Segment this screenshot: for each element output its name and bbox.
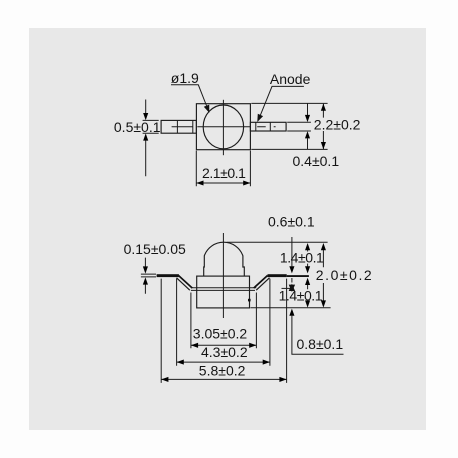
- svg-text:1.4±0.1: 1.4±0.1: [280, 249, 324, 265]
- top view horizontal centerline: [172, 126, 276, 128]
- svg-text:3.05±0.2: 3.05±0.2: [193, 325, 248, 341]
- body top/bottom extension lines (right): [251, 103, 327, 149]
- top view body outline: [196, 104, 250, 150]
- side view body outline: [197, 276, 250, 308]
- dimension 2.0±0.2 (overall height): [316, 243, 373, 308]
- dimension 1.4±0.1 upper (dome top to seating): [280, 243, 324, 273]
- side view epoxy dome: [204, 242, 245, 276]
- lead frame lines through body: [191, 288, 256, 291]
- svg-text:ø1.9: ø1.9: [171, 70, 199, 86]
- svg-text:0.5±0.1: 0.5±0.1: [114, 119, 161, 135]
- side view anode mark nub: [248, 299, 251, 302]
- label 0.6±0.1 (lead height above seating): [268, 214, 315, 293]
- svg-text:2.0±0.2: 2.0±0.2: [316, 267, 373, 283]
- foot extension lines left (0.15 dim): [141, 274, 156, 277]
- top view left lead (cathode): [161, 120, 196, 133]
- left lead gull-wing diagonal: [177, 276, 193, 291]
- svg-text:2.1±0.1: 2.1±0.1: [202, 165, 246, 181]
- drawing panel background: [29, 28, 426, 430]
- label ø1.9 with leader arrow to lens: [171, 70, 210, 113]
- dimension 4.3±0.2 (foot inner span): [177, 279, 270, 366]
- dimension 0.4±0.1 (right lead width): [293, 103, 340, 169]
- svg-text:Anode: Anode: [270, 71, 311, 87]
- dimension 1.4±0.1 lower (seating to body bottom): [279, 278, 323, 308]
- top view lens circle ø1.9: [203, 105, 243, 149]
- dome top extension line: [227, 241, 328, 243]
- body bottom extension line: [250, 307, 330, 309]
- dimension 0.5±0.1 (left lead width): [114, 100, 161, 177]
- svg-text:5.8±0.2: 5.8±0.2: [199, 362, 246, 378]
- top view right lead (anode): [250, 122, 286, 131]
- top view vertical centerline: [222, 100, 224, 155]
- label Anode with leader arrow to right lead: [257, 71, 310, 122]
- left lead foot: [157, 274, 179, 277]
- lead bottom extension line (right): [282, 287, 292, 289]
- svg-text:0.4±0.1: 0.4±0.1: [293, 153, 340, 169]
- dimension 0.8±0.1 with leader: [289, 309, 343, 355]
- svg-text:4.3±0.2: 4.3±0.2: [201, 344, 248, 360]
- seating plane extension line (right): [287, 275, 309, 277]
- svg-text:0.8±0.1: 0.8±0.1: [297, 336, 344, 352]
- right lead extension lines: [287, 122, 311, 131]
- svg-text:1.4±0.1: 1.4±0.1: [279, 287, 323, 303]
- dimension 5.8±0.2 (overall lead span): [161, 279, 286, 383]
- svg-text:2.2±0.2: 2.2±0.2: [314, 117, 361, 133]
- dimension 3.05±0.2 (inner bend span): [191, 293, 257, 349]
- dimension 0.15±0.05 (lead thickness): [124, 241, 186, 294]
- dimension 2.2±0.2 (body height): [314, 104, 361, 150]
- svg-text:0.6±0.1: 0.6±0.1: [268, 214, 315, 230]
- svg-text:0.15±0.05: 0.15±0.05: [124, 241, 186, 257]
- side view vertical centerline: [222, 233, 224, 318]
- right lead foot: [268, 274, 287, 277]
- dimension 2.1±0.1 (body width): [196, 151, 250, 187]
- right lead gull-wing diagonal: [254, 276, 270, 291]
